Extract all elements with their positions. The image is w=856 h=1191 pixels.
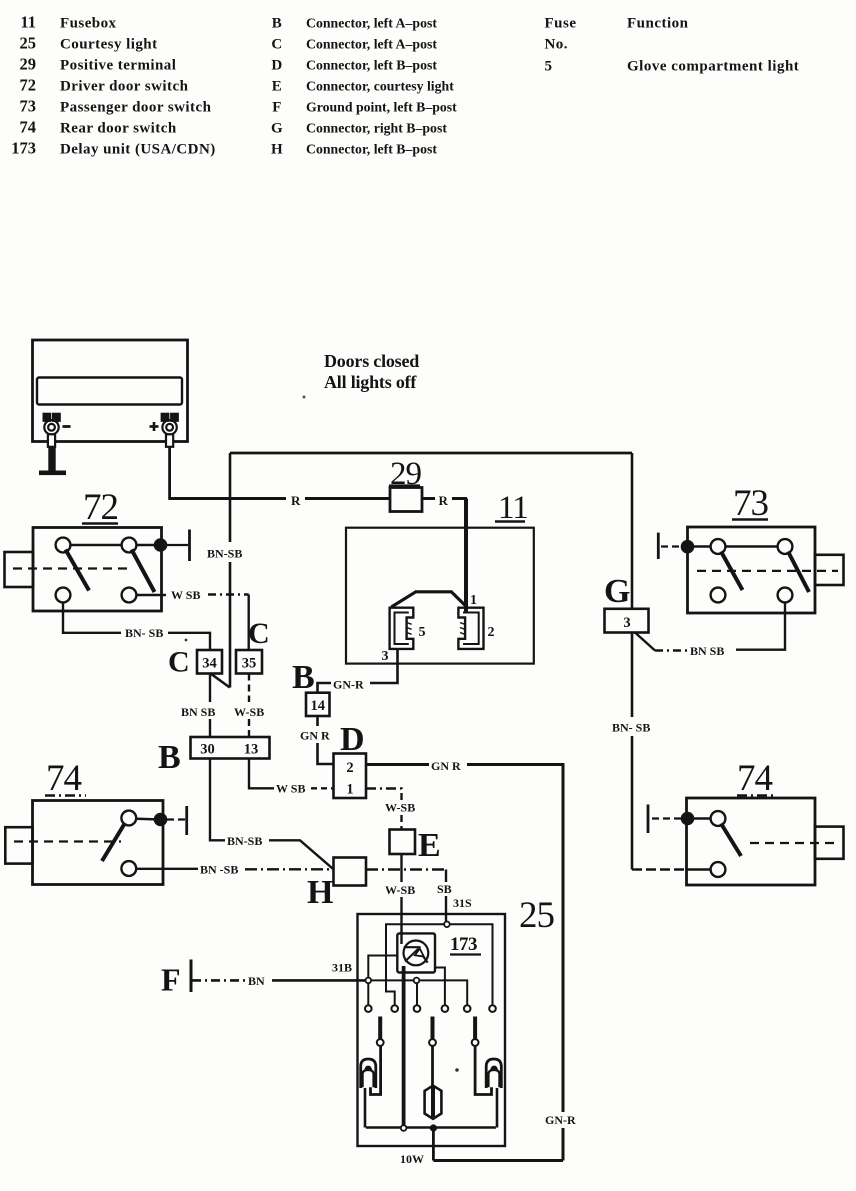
wire D1 right to E (W-SB): [366, 789, 402, 830]
wire vertical x230 down to C34: [211, 453, 231, 688]
switch 74R right tab: [815, 827, 844, 859]
svg-text:5: 5: [419, 625, 426, 640]
svg-text:74: 74: [20, 118, 37, 137]
connector D 2/1: [334, 754, 367, 799]
legend item F: [272, 100, 457, 116]
F terminator bar: [190, 960, 193, 993]
svg-text:R: R: [439, 493, 449, 508]
svg-text:31S: 31S: [453, 896, 472, 910]
svg-text:C: C: [271, 37, 282, 53]
legend item 11 Fusebox: [20, 13, 116, 32]
svg-text:Delay unit (USA/CDN): Delay unit (USA/CDN): [60, 142, 216, 158]
fuse clip left hatching: [407, 623, 412, 635]
fuse clip right hatching: [460, 623, 465, 635]
svg-text:5: 5: [545, 59, 553, 75]
courtesy light unit 25: [358, 895, 555, 1166]
switch 72 body: [33, 528, 162, 612]
wire B30 down to H: [210, 759, 334, 870]
svg-text:Ground point, left B–post: Ground point, left B–post: [306, 100, 457, 115]
fuse element jumper: [391, 592, 466, 607]
svg-text:13: 13: [244, 742, 259, 758]
switch 72 contacts top: [56, 538, 71, 553]
wire node2 to pin3: [416, 984, 418, 1006]
fusebox body: [346, 528, 534, 664]
switch 72 common node: [154, 538, 168, 552]
svg-text:30: 30: [200, 742, 215, 758]
wire H right to 31S (SB): [366, 870, 446, 922]
svg-text:Fusebox: Fusebox: [60, 16, 117, 32]
switch 72 left tab: [5, 552, 34, 587]
svg-text:Courtesy light: Courtesy light: [60, 37, 158, 53]
svg-text:BN-SB: BN-SB: [207, 547, 242, 561]
switch 74R dashed travel line: [750, 842, 838, 844]
box 25: [358, 914, 506, 1146]
connector C pin 35: [236, 650, 262, 674]
node 31B-1: [366, 978, 372, 984]
svg-text:Connector, left B–post: Connector, left B–post: [306, 58, 437, 73]
legend item H: [271, 142, 437, 158]
connector C pin 34: [197, 650, 222, 674]
svg-text:G: G: [604, 573, 630, 610]
label 29: [389, 456, 422, 492]
wire R right of 29: [422, 497, 467, 500]
lamp bottom bus: [366, 1126, 496, 1129]
svg-text:25: 25: [519, 895, 555, 936]
pin circles row: [365, 1005, 496, 1012]
switch 74R terminator: [652, 817, 681, 819]
svg-text:74: 74: [46, 758, 82, 799]
svg-text:D: D: [271, 58, 282, 74]
node 31S: [444, 922, 450, 928]
lamp left hook wire: [371, 1046, 381, 1095]
switch 73 right tab: [815, 555, 844, 585]
legend function column: [627, 16, 799, 75]
switch 73 contact rail: [688, 545, 785, 547]
positive terminal 29 box: [390, 488, 422, 512]
switch plungers: [380, 1017, 475, 1040]
fuse clip left: [390, 608, 414, 649]
wire E down to 25 (W-SB): [400, 854, 402, 933]
delay unit 173: [397, 933, 435, 972]
wire 72 bottom-right to C35 (W-SB): [137, 595, 249, 651]
driver door switch 72: [5, 487, 190, 611]
svg-text:BN: BN: [248, 974, 265, 988]
switch 73 common node: [681, 540, 695, 554]
svg-text:BN-SB: BN-SB: [227, 834, 262, 848]
wire B13 down to D1 (W SB): [249, 759, 334, 789]
connector B pin 14: [306, 693, 330, 716]
switch 73 levers: [721, 552, 743, 591]
svg-text:BN -SB: BN -SB: [200, 863, 238, 877]
svg-text:10W: 10W: [400, 1152, 424, 1166]
switch 74R contact top: [711, 811, 726, 826]
svg-text:14: 14: [310, 698, 325, 714]
wire B14 down to D2: [318, 716, 334, 764]
node bus open: [401, 1125, 407, 1131]
switch 72 dashed travel line: [13, 567, 130, 569]
svg-text:E: E: [418, 827, 441, 864]
svg-text:BN SB: BN SB: [690, 644, 724, 658]
svg-text:Connector, left A–post: Connector, left A–post: [306, 16, 437, 31]
svg-text:GN-R: GN-R: [333, 678, 364, 692]
rear door switch 74 right: [648, 758, 844, 885]
battery ground cable: [48, 447, 55, 472]
legend item 25 Courtesy light: [20, 34, 158, 53]
svg-text:GN R: GN R: [300, 729, 330, 743]
ground symbol: [39, 471, 66, 476]
wire G to 73 (BN SB): [635, 603, 785, 651]
wire battery plus down: [168, 447, 171, 499]
svg-text:W-SB: W-SB: [385, 801, 415, 815]
passenger door switch 73: [658, 483, 843, 613]
svg-text:1: 1: [346, 782, 353, 798]
svg-text:BN- SB: BN- SB: [612, 721, 650, 735]
wire fuse 3 down and left to B14 (GN-R): [318, 649, 398, 693]
wire relay left to pin1: [368, 956, 397, 1006]
switch 74R contact rail: [688, 817, 718, 819]
svg-text:F: F: [161, 962, 181, 998]
svg-text:35: 35: [242, 656, 257, 672]
svg-text:34: 34: [202, 656, 217, 672]
legend item 74 Rear door switch: [20, 118, 177, 137]
switch 72 contact rail: [63, 544, 160, 546]
legend item 173 Delay unit: [11, 139, 215, 158]
svg-text:F: F: [272, 100, 282, 116]
svg-text:72: 72: [20, 76, 37, 95]
wire relay right to pin4: [435, 968, 445, 1006]
svg-text:1: 1: [470, 593, 477, 608]
svg-text:C: C: [248, 617, 270, 650]
svg-text:31B: 31B: [332, 961, 352, 975]
minus sign: [63, 425, 71, 428]
svg-text:72: 72: [83, 487, 118, 528]
svg-text:GN R: GN R: [431, 759, 461, 773]
legend item 72 Driver door switch: [20, 76, 189, 95]
switch 72 contacts bottom: [56, 588, 71, 603]
node bus junction: [430, 1124, 437, 1131]
switch 73 contacts top: [711, 539, 726, 554]
wire 72 bottom-left to C34 (BN-SB): [63, 603, 210, 651]
svg-text:B: B: [272, 16, 282, 32]
svg-text:BN SB: BN SB: [181, 705, 215, 719]
wire 74L bottom to H (BN-SB): [137, 868, 334, 871]
rear door switch 74 left: [5, 758, 186, 885]
battery: [33, 340, 188, 442]
legend item 73 Passenger door switch: [20, 97, 212, 116]
svg-text:BN- SB: BN- SB: [125, 626, 163, 640]
switch 74L dashed travel line: [14, 840, 121, 842]
relay output thick wire: [402, 966, 406, 1125]
switch 74L contact top: [121, 811, 136, 826]
svg-text:H: H: [271, 142, 283, 158]
legend fuse column: [545, 16, 577, 75]
wire thick down to fuse 1: [464, 499, 468, 612]
lamp right hook wire: [475, 1046, 491, 1095]
LEGEND: [11, 13, 799, 158]
switch 74L body: [33, 801, 164, 885]
switch 74L terminator: [167, 818, 185, 820]
switch 74L lever: [102, 823, 125, 861]
svg-text:Connector, right B–post: Connector, right B–post: [306, 121, 447, 136]
wire main vertical to 74R bottom: [632, 868, 711, 870]
switch 73 body: [688, 527, 816, 613]
wire out bottom 10W: [432, 1128, 435, 1161]
battery positive terminal: [162, 414, 178, 447]
svg-text:R: R: [291, 493, 301, 508]
connector H: [334, 858, 367, 886]
wire D2 right (GN R) long run: [366, 765, 563, 1161]
switch 73 terminator: [661, 545, 681, 547]
svg-text:3: 3: [623, 615, 630, 631]
svg-text:73: 73: [20, 97, 37, 116]
lamp right bulb: [486, 1059, 501, 1088]
stray scan dot: [303, 396, 306, 399]
svg-text:Connector, left A–post: Connector, left A–post: [306, 37, 437, 52]
connector E: [390, 830, 416, 855]
svg-text:2: 2: [346, 760, 353, 776]
wire top distribution BN-SB horizontal y453: [230, 452, 632, 455]
svg-text:W SB: W SB: [171, 588, 200, 602]
switch 74R body: [687, 798, 816, 885]
lamp left bulb: [361, 1059, 376, 1088]
svg-text:H: H: [307, 874, 333, 911]
svg-text:Connector, left B–post: Connector, left B–post: [306, 142, 437, 157]
wire C35 down to B13: [248, 674, 250, 738]
node 31B-2: [414, 978, 420, 984]
switch 74L contact rail: [129, 819, 161, 820]
stray dot right of lamps: [455, 1068, 459, 1072]
svg-text:GN-R: GN-R: [545, 1113, 576, 1127]
svg-text:Rear door switch: Rear door switch: [60, 121, 177, 137]
switch 74L contact bottom: [121, 861, 136, 876]
wire right main vertical BN-SB: [631, 453, 634, 870]
wire R horizontal to box 29: [168, 497, 390, 500]
fusebox 11: [346, 490, 534, 664]
svg-text:C: C: [168, 646, 190, 679]
plus sign: [150, 422, 159, 431]
svg-text:2: 2: [488, 625, 495, 640]
svg-text:E: E: [272, 79, 282, 95]
legend item C: [271, 37, 437, 53]
wire 31S left branch to pin2: [386, 924, 444, 1005]
svg-text:Doors closed: Doors closed: [324, 351, 419, 371]
svg-text:B: B: [292, 659, 315, 696]
legend item 29 Positive terminal: [20, 55, 177, 74]
svg-text:W-SB: W-SB: [385, 883, 415, 897]
stray dot: [185, 639, 188, 642]
svg-text:Connector, courtesy light: Connector, courtesy light: [306, 79, 454, 94]
legend item G: [271, 121, 447, 137]
wire 31S right branch to pin6: [450, 924, 493, 1005]
svg-text:W-SB: W-SB: [234, 705, 264, 719]
legend item D: [271, 58, 437, 74]
svg-text:Positive terminal: Positive terminal: [60, 58, 176, 74]
legend item E: [272, 79, 454, 95]
fuse clip right: [458, 608, 483, 649]
wire 31B across: [372, 980, 468, 1005]
svg-text:73: 73: [733, 483, 769, 524]
switch 74R contact bottom: [711, 862, 726, 877]
svg-text:No.: No.: [545, 37, 568, 53]
svg-text:Driver door switch: Driver door switch: [60, 79, 189, 95]
svg-text:W SB: W SB: [276, 782, 305, 796]
svg-text:All lights off: All lights off: [324, 372, 417, 392]
svg-text:11: 11: [20, 13, 36, 32]
svg-text:25: 25: [20, 34, 37, 53]
lamp middle festoon: [431, 1046, 434, 1087]
svg-text:Glove compartment light: Glove compartment light: [627, 59, 799, 75]
connector B 30/13: [191, 737, 270, 759]
svg-text:D: D: [340, 721, 365, 758]
legend item B: [272, 16, 438, 32]
svg-text:SB: SB: [437, 882, 452, 896]
switch 74R common node: [681, 812, 695, 826]
svg-text:G: G: [271, 121, 283, 137]
svg-text:173: 173: [11, 139, 36, 158]
switch 72 levers: [66, 550, 90, 591]
battery negative terminal: [44, 414, 60, 447]
svg-text:Passenger door switch: Passenger door switch: [60, 100, 212, 116]
wire F to 25 (BN, 31B): [192, 979, 365, 982]
lamp left down wire: [364, 1088, 367, 1128]
svg-text:29: 29: [20, 55, 37, 74]
switch 74L left tab: [5, 827, 32, 863]
wire C34 down to B30: [209, 674, 211, 738]
svg-text:Function: Function: [627, 16, 689, 32]
switch 73 dashed travel line: [697, 570, 838, 572]
svg-text:B: B: [158, 739, 181, 776]
svg-text:74: 74: [737, 758, 773, 799]
switch 73 contacts bottom: [711, 588, 726, 603]
svg-text:Fuse: Fuse: [545, 16, 577, 32]
svg-text:3: 3: [382, 649, 389, 664]
switch 72 terminator: [167, 544, 188, 546]
caption Doors closed / All lights off: [324, 351, 419, 392]
switch 74R lever: [721, 824, 741, 857]
svg-text:173: 173: [450, 934, 477, 955]
connector G: [605, 609, 649, 633]
switch 74L common node: [154, 813, 168, 827]
lamp right down wire: [496, 1088, 499, 1128]
